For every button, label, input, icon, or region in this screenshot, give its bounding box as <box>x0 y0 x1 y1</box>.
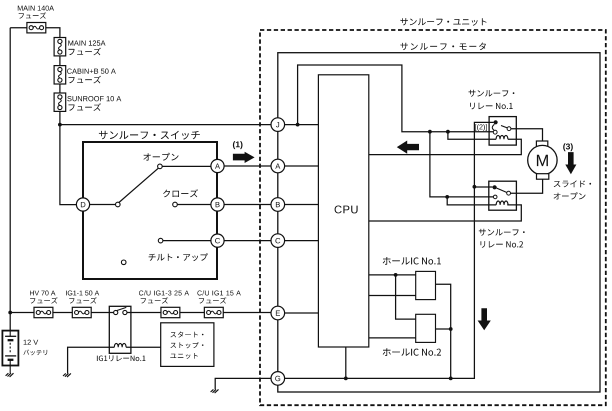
sunroof motor box <box>278 53 600 392</box>
fuse MAIN 140A <box>27 23 46 33</box>
wire switch A to unit A <box>224 165 271 167</box>
label tilt-up <box>149 253 208 261</box>
wire relay ground chain to unit pin G <box>285 122 494 378</box>
wire unit pin C to CPU <box>285 240 319 242</box>
wire CPU to hall IC power <box>369 274 416 276</box>
switch open contact <box>158 164 163 169</box>
wire CPU to relay2 coil <box>369 205 522 221</box>
wire CPU to hall IC No.2 signal <box>369 337 416 339</box>
label sunroof relay No.1 <box>469 90 515 110</box>
switch common contact <box>116 202 121 207</box>
label slide open <box>554 180 592 199</box>
wire MAIN 140A fuse to fuse stack <box>46 28 60 38</box>
switch tilt-up contact <box>158 238 163 243</box>
label (1) <box>233 141 243 149</box>
wire IG1 relay coil to ground <box>68 347 115 373</box>
label sunroof unit <box>400 18 486 26</box>
node junction relay rail / relay1 coil feed <box>446 130 450 134</box>
relay sunroof No.2 <box>489 181 517 210</box>
node junction relay2 coil feed <box>445 195 449 199</box>
ground sunroof unit <box>211 389 219 393</box>
wire hall IC grounds to ground rail <box>436 284 451 378</box>
wire switch B to unit B <box>224 204 271 206</box>
node junction battery rail / lower feed <box>8 311 12 315</box>
fuse C/U IG1-3 25 A <box>161 307 180 317</box>
arrow down flow (halls) <box>478 308 491 330</box>
fuse HV 70 A <box>34 307 53 317</box>
sunroof unit dashed box <box>260 30 606 405</box>
ground battery <box>6 373 14 377</box>
switch lever arm <box>119 168 158 202</box>
relay IG1 No.1 <box>109 306 131 353</box>
label hall IC No.1 <box>383 257 441 265</box>
wire CPU to hall IC No.1 signal <box>369 295 416 297</box>
label 12 V battery <box>23 340 47 356</box>
wire between CABIN+B and SUNROOF fuses <box>59 84 61 93</box>
fuse MAIN 125A <box>54 38 66 56</box>
ground IG1 relay coil <box>63 373 71 377</box>
wire unit pin J to CPU <box>285 124 319 126</box>
hall IC No.2 box <box>416 314 436 342</box>
unit pin A <box>271 159 285 173</box>
node junction relay rail / relay2 feed <box>428 130 432 134</box>
node junction fuse rail / pin J feed <box>58 123 62 127</box>
node junction CPU ground <box>344 377 348 381</box>
label sunroof switch <box>99 131 200 140</box>
label (2) <box>475 124 487 131</box>
wire unit pin A to CPU <box>285 165 319 167</box>
wire switch C to unit C <box>224 240 271 242</box>
unit pin C <box>271 234 285 248</box>
label MAIN 125A fuse <box>68 40 105 55</box>
fuse CABIN+B 50 A <box>54 66 66 84</box>
wire feed to sunroof relay2 contact <box>430 132 493 197</box>
wire J branch over CPU to relay rail <box>298 65 494 132</box>
fuse IG1-1 50 A <box>72 307 91 317</box>
sunroof switch box <box>83 142 217 279</box>
switch pin B <box>211 198 224 211</box>
label MAIN 140A fuse <box>18 6 54 19</box>
node junction ground chain / relay2 contact <box>473 185 477 189</box>
start-stop unit box <box>161 323 214 367</box>
wire ground chain to relay2 NC contact <box>474 186 492 188</box>
unit pin G <box>271 372 285 386</box>
wire CPU to relay1 coil <box>369 139 522 154</box>
wire SUNROOF fuse down to switch feed <box>60 111 77 204</box>
relay sunroof No.1 <box>489 117 516 146</box>
label C/U IG1 15 A fuse <box>197 290 240 303</box>
wire unit pin B to CPU <box>285 204 319 206</box>
wire motor bottom to relay2 <box>511 179 543 193</box>
wire close contact to switch pin B <box>177 204 211 206</box>
CPU box <box>318 75 368 347</box>
arrow (3) down <box>565 152 576 174</box>
wire unit pin E to CPU <box>285 312 319 314</box>
motor M <box>528 141 557 179</box>
label IG1 relay No.1 <box>97 355 145 361</box>
wire fuse rail to unit pin J <box>60 124 271 126</box>
wire feed to sunroof relay1 coil <box>448 132 496 140</box>
wire IG1 relay coil to start-stop unit <box>126 346 161 348</box>
hall IC No.1 box <box>416 271 436 299</box>
wire unit pin G to ground <box>215 378 271 389</box>
wire tilt-up contact to switch pin C <box>163 240 211 242</box>
wire lower feed rail <box>10 312 271 314</box>
switch pin D <box>76 198 89 211</box>
wire switch pin D to common contact <box>90 204 116 206</box>
label hall IC No.2 <box>383 348 441 356</box>
unit pin B <box>271 198 285 212</box>
label SUNROOF 10 A fuse <box>67 96 121 111</box>
battery 12V <box>2 331 18 374</box>
node junction ground rail / hall chain <box>449 377 453 381</box>
wire relay1 to motor top <box>511 129 543 141</box>
fuse SUNROOF 10 A <box>54 93 66 111</box>
label HV 70 A fuse <box>30 291 58 304</box>
label open <box>143 153 178 161</box>
node junction hall power <box>394 273 398 277</box>
wire open contact to switch pin A <box>162 165 211 167</box>
label (3) <box>563 143 573 151</box>
switch close contact <box>173 202 178 207</box>
wire between MAIN 125A and CABIN+B fuses <box>59 56 61 66</box>
wire battery + rail to MAIN 140A fuse <box>10 28 27 331</box>
fuse C/U IG1 15 A <box>204 307 223 317</box>
wire hall power branch to hall IC No.2 <box>396 275 416 319</box>
unit pin J <box>271 118 285 132</box>
arrow left flow <box>397 141 419 154</box>
label IG1-1 50 A fuse <box>66 291 99 304</box>
switch pin C <box>211 234 224 247</box>
node junction J branch <box>296 123 300 127</box>
switch pin A <box>211 159 224 172</box>
node junction hall IC No.2 ground <box>449 327 453 331</box>
label CPU <box>335 206 358 214</box>
switch tilt-up rest contact <box>121 260 126 265</box>
label CABIN+B 50 A fuse <box>67 69 116 84</box>
arrow (1) right <box>233 152 255 163</box>
label start-stop unit <box>170 332 203 359</box>
unit pin E <box>271 306 285 320</box>
label sunroof relay No.2 <box>479 229 525 248</box>
wire feed to sunroof relay2 coil <box>447 197 496 205</box>
wire CPU to ground rail <box>345 347 347 378</box>
label sunroof motor <box>400 43 486 51</box>
label C/U IG1-3 25 A fuse <box>139 290 189 303</box>
label close <box>163 189 198 197</box>
